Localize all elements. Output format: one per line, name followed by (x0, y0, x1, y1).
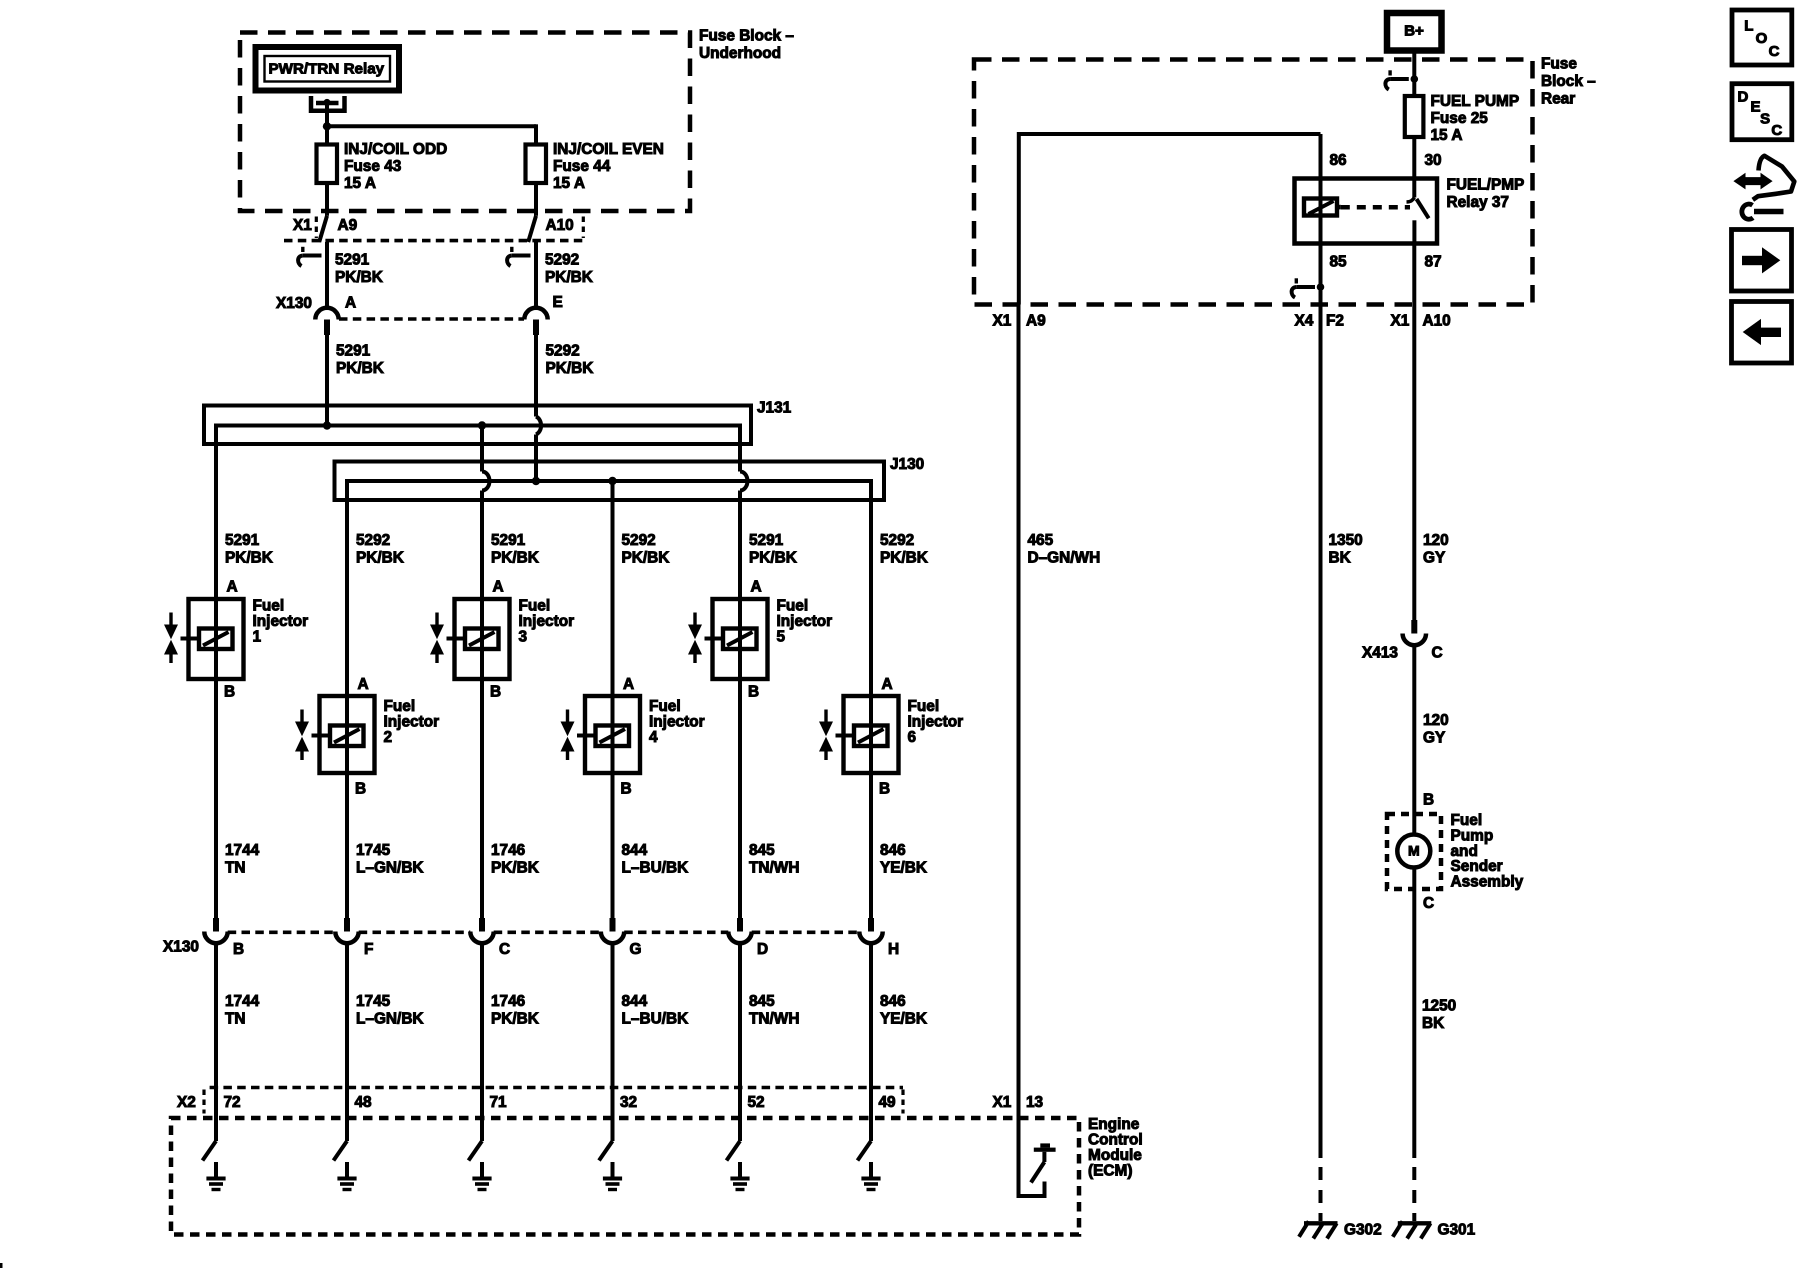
svg-text:L–GN/BK: L–GN/BK (356, 860, 424, 877)
svg-text:1744: 1744 (225, 842, 260, 859)
fuel injector 6 (844, 696, 899, 773)
motor M fuel pump (1397, 835, 1430, 868)
connector X130-D (737, 918, 743, 932)
svg-text:845: 845 (749, 842, 775, 859)
wire 5292 A10 to X130-E (534, 242, 538, 309)
svg-text:H: H (888, 941, 899, 958)
svg-text:A: A (882, 676, 893, 693)
svg-text:X413: X413 (1362, 645, 1398, 662)
svg-text:B: B (490, 684, 501, 701)
bus J130 (347, 479, 871, 483)
svg-text:F2: F2 (1326, 313, 1344, 330)
wire hop 5292 over J131 bus (536, 417, 541, 435)
svg-text:INJ/COIL EVEN: INJ/COIL EVEN (553, 141, 664, 158)
connector X2 separator left (202, 1090, 205, 1114)
connector X130 dashed link (339, 317, 524, 321)
svg-text:A10: A10 (546, 217, 574, 234)
icon LOC box (1732, 10, 1792, 65)
svg-text:B: B (748, 684, 759, 701)
wire injector 5 lower (738, 491, 742, 919)
fuel injector 4 (585, 696, 640, 773)
splice pack J131 box (204, 406, 751, 445)
wire J130 left end to injector 2 (345, 479, 349, 918)
svg-text:Fuel: Fuel (777, 598, 809, 615)
svg-text:32: 32 (620, 1094, 637, 1111)
terminal A10 pass-through (528, 216, 536, 242)
svg-text:5292: 5292 (622, 532, 656, 549)
wire 5292 X130-E to J131 hop (534, 335, 538, 417)
svg-text:Engine: Engine (1088, 1116, 1140, 1133)
connector X413 (1411, 620, 1417, 634)
node J130 wire E junction (532, 477, 540, 485)
svg-text:846: 846 (880, 842, 906, 859)
svg-text:Fuse: Fuse (1541, 56, 1577, 73)
svg-text:120: 120 (1423, 712, 1449, 729)
wire pin 87 down (1412, 244, 1416, 621)
svg-text:C: C (1423, 895, 1434, 912)
node J131 wire A junction (323, 421, 331, 429)
svg-text:D: D (757, 941, 768, 958)
svg-text:D: D (1738, 89, 1749, 106)
svg-text:L–BU/BK: L–BU/BK (622, 860, 689, 877)
wire 846 X130 to ECM (869, 943, 873, 1141)
svg-text:B: B (233, 941, 244, 958)
svg-text:X4: X4 (1295, 313, 1314, 330)
wire dashed to G302 (1319, 1167, 1323, 1180)
svg-text:A: A (493, 579, 504, 596)
fuel pump dashed box (1387, 814, 1441, 889)
wire fuse 25 to relay pin 30 (1412, 137, 1416, 198)
wire injector 3 lower (480, 491, 484, 919)
svg-text:PK/BK: PK/BK (545, 269, 593, 286)
svg-text:Injector: Injector (384, 714, 440, 731)
svg-text:Module: Module (1088, 1147, 1142, 1164)
svg-text:A: A (623, 676, 634, 693)
svg-text:72: 72 (224, 1094, 241, 1111)
fuse F25 FUEL PUMP (1405, 96, 1424, 137)
svg-text:48: 48 (355, 1094, 373, 1111)
svg-text:L: L (1744, 18, 1753, 35)
wire fuel pump to ground (1412, 868, 1416, 1159)
svg-text:X1: X1 (993, 313, 1012, 330)
svg-text:INJ/COIL ODD: INJ/COIL ODD (344, 141, 447, 158)
svg-text:M: M (1408, 843, 1420, 859)
wire B+ to fuse 25 (1412, 51, 1416, 97)
svg-text:PWR/TRN Relay: PWR/TRN Relay (269, 61, 385, 78)
svg-text:120: 120 (1423, 532, 1449, 549)
svg-text:1745: 1745 (356, 993, 391, 1010)
svg-text:A: A (345, 295, 356, 312)
wire J131 left end to injector 1 (214, 424, 218, 919)
connector X2 dashed line (210, 1086, 903, 1090)
bus J131 (216, 424, 740, 428)
svg-text:PK/BK: PK/BK (622, 550, 670, 567)
svg-text:J131: J131 (757, 400, 792, 417)
fuel injector 3 (455, 599, 510, 679)
connector X130-G (610, 918, 616, 932)
ECM internal switch pin 13 (1034, 1148, 1056, 1152)
battery B+ terminal box (1387, 13, 1442, 51)
svg-text:Fuse Block –: Fuse Block – (699, 28, 794, 45)
svg-text:X130: X130 (276, 295, 312, 312)
wire relay output down (325, 104, 329, 126)
svg-text:15 A: 15 A (344, 175, 376, 192)
svg-text:465: 465 (1028, 532, 1054, 549)
relay PWR/TRN output terminal symbol (311, 96, 345, 111)
page edge mark (0, 1263, 3, 1268)
svg-text:1350: 1350 (1329, 532, 1363, 549)
svg-text:15 A: 15 A (553, 175, 585, 192)
wire 1746 X130 to ECM (480, 943, 484, 1141)
svg-text:A: A (358, 676, 369, 693)
node junction fuse feed (323, 122, 331, 130)
svg-text:1744: 1744 (225, 993, 260, 1010)
svg-text:E: E (1751, 99, 1761, 116)
wire pin 85 down (1319, 244, 1323, 1159)
fuel injector 2 (320, 696, 375, 773)
connector X1 bottom dashed line (284, 239, 583, 243)
wire 845 X130 to ECM (738, 943, 742, 1141)
icon navigate (arrows and wrench) (1733, 173, 1745, 190)
svg-text:Fuel: Fuel (384, 698, 416, 715)
wire 1745 X130 to ECM (345, 943, 349, 1141)
svg-text:5292: 5292 (356, 532, 390, 549)
svg-text:X1: X1 (1391, 313, 1410, 330)
wire 1744 X130 to ECM (214, 943, 218, 1141)
svg-text:YE/BK: YE/BK (880, 1011, 927, 1028)
wire hop injector5 over J130 bus (740, 472, 748, 491)
svg-text:Fuse 25: Fuse 25 (1431, 110, 1489, 127)
svg-text:Injector: Injector (253, 613, 309, 630)
relay PWR/TRN box (256, 47, 400, 91)
svg-text:L–GN/BK: L–GN/BK (356, 1011, 424, 1028)
svg-text:J130: J130 (890, 456, 924, 473)
wire through relay coil (1319, 199, 1323, 244)
svg-text:A: A (751, 579, 762, 596)
svg-text:Relay 37: Relay 37 (1447, 194, 1509, 211)
svg-text:PK/BK: PK/BK (335, 269, 383, 286)
node J131 branch injector 3 (478, 421, 486, 429)
svg-text:Assembly: Assembly (1451, 873, 1524, 890)
svg-text:A: A (227, 579, 238, 596)
ECM driver and ground pin 52 (727, 1141, 741, 1161)
node J130 branch injector 4 (608, 477, 616, 485)
svg-text:5291: 5291 (749, 532, 784, 549)
fuse block underhood dashed box (240, 33, 690, 212)
svg-text:PK/BK: PK/BK (225, 550, 273, 567)
svg-text:PK/BK: PK/BK (491, 1011, 539, 1028)
wire J130 right end to injector 6 (869, 479, 873, 918)
wire 465 feed horizontal (1019, 134, 1321, 305)
svg-text:X2: X2 (177, 1094, 196, 1111)
svg-text:(ECM): (ECM) (1088, 1163, 1132, 1180)
svg-text:5291: 5291 (335, 252, 370, 269)
wire 5291 A9 to X130-A (325, 242, 329, 309)
svg-text:TN: TN (225, 860, 246, 877)
svg-text:S: S (1760, 111, 1770, 128)
svg-text:E: E (553, 294, 563, 311)
wire X413 to fuel pump (1412, 645, 1416, 834)
svg-text:5292: 5292 (880, 532, 914, 549)
ECM driver and ground pin 48 (334, 1141, 348, 1161)
wire junction to fuse 44 branch (327, 124, 536, 128)
svg-text:Injector: Injector (519, 613, 575, 630)
svg-text:FUEL/PMP: FUEL/PMP (1447, 177, 1525, 194)
svg-text:844: 844 (622, 993, 648, 1010)
connector X1 separator dash A10 (582, 217, 585, 239)
svg-text:5291: 5291 (336, 343, 371, 360)
wire J131 branch to injector 3 upper (480, 426, 484, 472)
terminal clip 85 wire (1295, 278, 1298, 283)
wire dashed to G301 (1412, 1167, 1416, 1180)
svg-text:TN/WH: TN/WH (749, 1011, 799, 1028)
svg-text:846: 846 (880, 993, 906, 1010)
svg-text:Injector: Injector (649, 714, 705, 731)
svg-text:87: 87 (1425, 254, 1442, 271)
svg-text:13: 13 (1026, 1094, 1043, 1111)
svg-text:PK/BK: PK/BK (546, 360, 594, 377)
svg-text:1745: 1745 (356, 842, 391, 859)
connector X2 separator right (901, 1090, 904, 1114)
icon back arrow box (1732, 302, 1792, 364)
wire pin 86 drop (1319, 134, 1323, 199)
svg-text:B+: B+ (1404, 23, 1424, 40)
svg-text:Block –: Block – (1541, 73, 1596, 90)
ground G302 (1304, 1221, 1338, 1225)
svg-text:F: F (364, 941, 373, 958)
svg-text:6: 6 (908, 729, 917, 746)
svg-text:TN: TN (225, 1011, 246, 1028)
svg-text:FUEL PUMP: FUEL PUMP (1431, 93, 1520, 110)
svg-text:O: O (1756, 30, 1768, 47)
connector X130 bottom dashed links (228, 930, 336, 934)
relay contact 30 (1407, 198, 1415, 203)
svg-text:Fuel: Fuel (253, 598, 285, 615)
wire J130 branch to injector 4 (611, 481, 615, 918)
svg-text:1746: 1746 (491, 993, 525, 1010)
svg-text:G301: G301 (1438, 1222, 1476, 1239)
icon forward arrow box (1732, 230, 1792, 292)
fuel injector 1 (189, 599, 244, 679)
svg-text:C: C (1771, 122, 1782, 139)
connector X130-H (868, 918, 874, 932)
svg-text:A9: A9 (1026, 313, 1046, 330)
wire J131 right end to injector 5 upper (738, 424, 742, 472)
ECM driver and ground pin 32 (599, 1141, 613, 1161)
svg-text:C: C (1769, 43, 1780, 60)
connector X130-C (479, 918, 485, 932)
relay FUEL/PMP 37 box (1295, 179, 1438, 244)
svg-text:85: 85 (1330, 254, 1348, 271)
svg-text:Fuel: Fuel (908, 698, 940, 715)
svg-text:5292: 5292 (546, 343, 580, 360)
svg-text:B: B (224, 684, 235, 701)
svg-text:Injector: Injector (908, 714, 964, 731)
svg-text:1: 1 (253, 629, 262, 646)
svg-text:Fuel: Fuel (649, 698, 681, 715)
svg-text:C: C (499, 941, 510, 958)
wire fuse 43 to X1-A9 (325, 183, 329, 216)
relay switch blade (1417, 199, 1429, 218)
wire 5292 to J130 bus (534, 435, 538, 482)
svg-text:Control: Control (1088, 1132, 1143, 1149)
svg-text:GY: GY (1423, 730, 1446, 747)
fuse block rear dashed box (974, 60, 1533, 305)
relay coil (1304, 199, 1337, 216)
svg-text:4: 4 (649, 729, 658, 746)
connector X130-F (344, 918, 350, 932)
svg-text:71: 71 (490, 1094, 508, 1111)
ECM driver and ground pin 49 (858, 1141, 872, 1161)
svg-text:5: 5 (777, 629, 786, 646)
svg-text:G302: G302 (1344, 1222, 1382, 1239)
svg-text:X1: X1 (293, 217, 312, 234)
svg-text:1250: 1250 (1422, 998, 1456, 1015)
icon DESC box (1732, 84, 1792, 140)
svg-text:3: 3 (519, 629, 528, 646)
svg-text:C: C (1432, 645, 1443, 662)
svg-text:30: 30 (1425, 152, 1442, 169)
svg-text:TN/WH: TN/WH (749, 860, 799, 877)
svg-text:B: B (621, 781, 632, 798)
svg-text:PK/BK: PK/BK (336, 360, 384, 377)
svg-text:86: 86 (1330, 152, 1347, 169)
svg-text:5292: 5292 (545, 252, 579, 269)
svg-text:Fuel: Fuel (519, 598, 551, 615)
svg-text:Injector: Injector (777, 613, 833, 630)
relay actuation dashed link (1341, 205, 1410, 210)
svg-text:PK/BK: PK/BK (749, 550, 797, 567)
connector X130-A (315, 308, 338, 320)
svg-text:BK: BK (1422, 1015, 1444, 1032)
svg-text:2: 2 (384, 729, 393, 746)
terminal clip B+ wire (1388, 70, 1391, 75)
connector X130-E (524, 308, 547, 320)
svg-text:B: B (879, 781, 890, 798)
ground G301 (1398, 1221, 1432, 1225)
fuel injector 5 (713, 599, 768, 679)
svg-text:Rear: Rear (1541, 91, 1575, 108)
svg-text:PK/BK: PK/BK (491, 860, 539, 877)
wire junction to fuse 43 (325, 126, 329, 144)
connector X1 separator dash (315, 217, 318, 239)
svg-text:A9: A9 (338, 217, 358, 234)
svg-text:BK: BK (1329, 550, 1351, 567)
splice pack J130 box (335, 462, 885, 501)
ECM driver and ground pin 71 (469, 1141, 483, 1161)
svg-text:PK/BK: PK/BK (491, 550, 539, 567)
svg-text:15 A: 15 A (1431, 127, 1463, 144)
svg-text:L–BU/BK: L–BU/BK (622, 1011, 689, 1028)
svg-text:5291: 5291 (491, 532, 526, 549)
svg-text:Fuse 44: Fuse 44 (553, 158, 611, 175)
wire 465 to ECM internal (1019, 305, 1045, 1197)
svg-text:5291: 5291 (225, 532, 260, 549)
svg-text:X130: X130 (163, 939, 199, 956)
svg-text:52: 52 (748, 1094, 765, 1111)
terminal A9 pass-through (319, 216, 327, 242)
svg-text:845: 845 (749, 993, 775, 1010)
svg-text:YE/BK: YE/BK (880, 860, 927, 877)
svg-text:B: B (355, 781, 366, 798)
ECM driver and ground pin 72 (203, 1141, 217, 1161)
svg-text:X1: X1 (993, 1094, 1012, 1111)
module ECM dashed box (171, 1118, 1079, 1235)
wire 5291 X130-A to J131 (325, 335, 329, 426)
wire fuse 44 to X1-A10 (534, 183, 538, 216)
svg-text:D–GN/WH: D–GN/WH (1028, 550, 1101, 567)
svg-text:49: 49 (879, 1094, 896, 1111)
svg-text:1746: 1746 (491, 842, 525, 859)
svg-text:844: 844 (622, 842, 648, 859)
svg-text:PK/BK: PK/BK (880, 550, 928, 567)
svg-text:GY: GY (1423, 550, 1446, 567)
relay pin 87 stub (1412, 220, 1416, 243)
svg-text:Fuse 43: Fuse 43 (344, 158, 401, 175)
svg-text:A10: A10 (1423, 313, 1451, 330)
connector X130-B (213, 918, 219, 932)
fuse F43 INJ/COIL ODD (317, 145, 338, 184)
svg-text:G: G (630, 941, 642, 958)
svg-text:B: B (1423, 792, 1434, 809)
svg-text:PK/BK: PK/BK (356, 550, 404, 567)
wire hop injector3 over J130 bus (482, 472, 490, 491)
svg-text:Underhood: Underhood (699, 45, 781, 62)
fuse F44 INJ/COIL EVEN (526, 145, 547, 184)
wire 844 X130 to ECM (611, 943, 615, 1141)
